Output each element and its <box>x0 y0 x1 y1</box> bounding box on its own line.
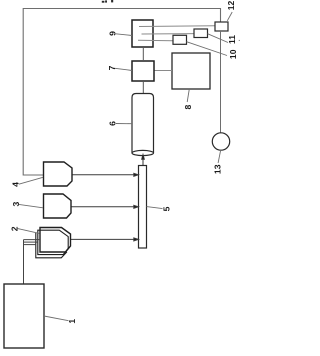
label 9 <box>107 31 132 36</box>
feed wires into hopper 2 <box>24 240 41 245</box>
svg-text:11: 11 <box>227 35 237 44</box>
cylinder 6 <box>132 94 154 156</box>
box 12 <box>215 22 228 31</box>
wire 9-7 <box>142 47 144 61</box>
label 4 <box>11 177 44 187</box>
arrow 2-5 <box>71 238 138 241</box>
label 6 <box>108 121 132 126</box>
hopper 2 stack outline C <box>36 233 67 258</box>
wire 7-6 <box>142 81 144 94</box>
cropped figure-title marks <box>102 0 113 3</box>
svg-text:9: 9 <box>107 31 117 36</box>
box 10 <box>173 35 187 44</box>
svg-text:12: 12 <box>226 1 236 11</box>
label 8 <box>183 89 193 109</box>
svg-text:8: 8 <box>183 104 193 109</box>
hopper 2 stack outline B <box>38 230 68 254</box>
label 11 <box>208 34 237 44</box>
svg-text:13: 13 <box>212 164 222 174</box>
label 3 <box>11 201 43 207</box>
svg-text:3: 3 <box>11 201 21 206</box>
wire 9-10 <box>138 39 173 42</box>
arrow 3-5 <box>72 205 139 208</box>
hopper 2 <box>40 228 71 253</box>
label 12 <box>226 1 236 21</box>
box 1 <box>4 284 44 348</box>
label 10 <box>187 42 239 59</box>
hopper 4 <box>44 162 73 186</box>
svg-text:10: 10 <box>228 49 238 59</box>
label 2 <box>9 226 39 233</box>
wire loop 12-to-4 <box>23 9 220 176</box>
label 1 <box>44 316 77 324</box>
wire 9-12 <box>139 25 215 28</box>
wire 7-8 <box>154 70 172 72</box>
circle 13 <box>212 133 229 150</box>
box 8 <box>172 53 210 89</box>
bar 5 <box>139 166 147 249</box>
box 11 <box>194 29 208 38</box>
hopper 3 <box>44 194 72 218</box>
box 9 <box>132 20 153 47</box>
edge tick <box>239 40 240 41</box>
wire 12-13 <box>220 31 222 133</box>
svg-text:7: 7 <box>107 65 117 70</box>
label 5 <box>147 206 172 211</box>
wire 2-1 <box>23 240 25 284</box>
arrow 4-5 <box>73 173 139 176</box>
box 7 <box>132 61 154 81</box>
label 13 <box>212 150 222 174</box>
label 7 <box>107 65 132 70</box>
arrow 5-6 <box>142 155 145 166</box>
svg-text:5: 5 <box>162 206 172 211</box>
wire 9-11 <box>142 33 195 35</box>
